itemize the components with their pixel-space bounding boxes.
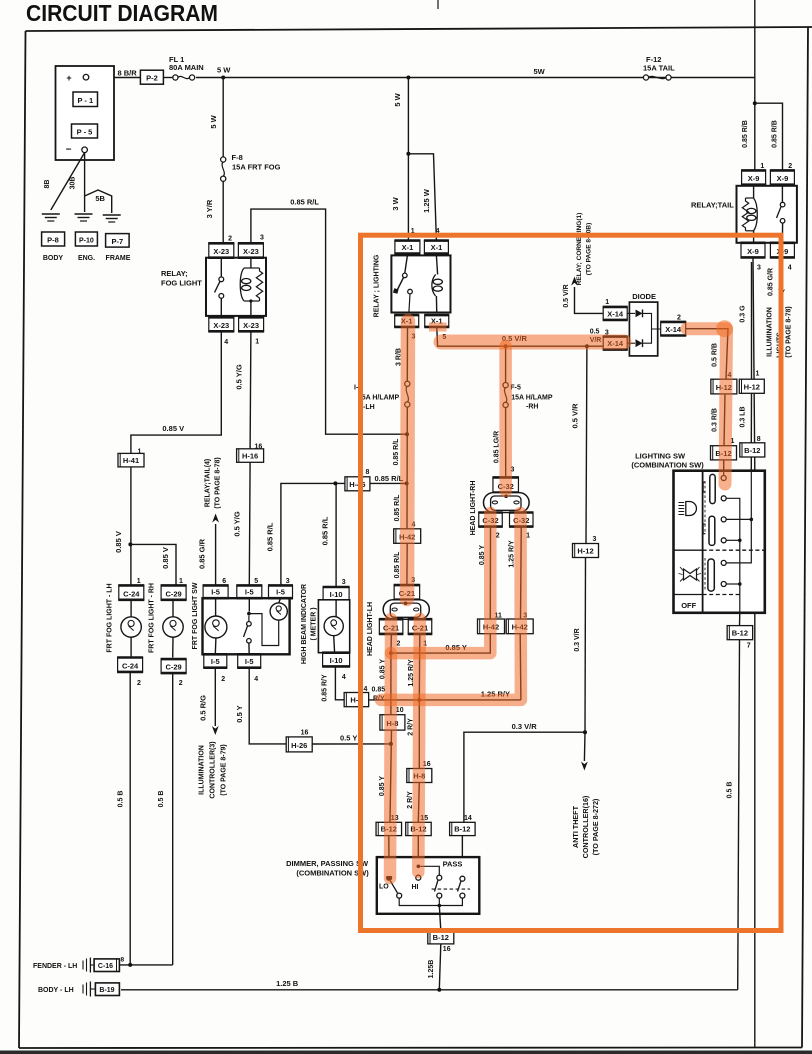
anti theft branch xyxy=(583,730,587,734)
svg-text:2: 2 xyxy=(137,680,141,687)
svg-text:0.85 V: 0.85 V xyxy=(161,547,170,569)
svg-text:3: 3 xyxy=(342,579,346,586)
fog sw bulb xyxy=(215,598,217,616)
wire X-9 pin3 down (long) xyxy=(753,257,755,470)
wire I-5 pin4 to H-26 0.5 Y xyxy=(249,668,287,744)
svg-text:4: 4 xyxy=(788,265,792,272)
wire I-5 pin2 down to ILLUMINATION CONTROLLER(3) xyxy=(214,668,216,726)
splice H-46 xyxy=(345,477,370,491)
svg-text:5 W: 5 W xyxy=(209,114,218,128)
connector I-5 xyxy=(204,654,227,667)
svg-text:16: 16 xyxy=(301,729,309,736)
svg-text:ILLUMINATION: ILLUMINATION xyxy=(199,745,206,795)
svg-text:5W: 5W xyxy=(534,67,546,76)
svg-text:0.85 R/L: 0.85 R/L xyxy=(321,516,330,545)
wire 2 R/Y down to H-8(16) xyxy=(418,700,420,769)
contact bars xyxy=(710,474,715,503)
svg-text:OFF: OFF xyxy=(681,601,696,610)
connector C-24 xyxy=(118,658,143,672)
svg-text:5: 5 xyxy=(254,578,258,585)
svg-text:5B: 5B xyxy=(95,194,105,203)
svg-text:I-5: I-5 xyxy=(211,588,220,597)
connector I-5 xyxy=(203,585,228,598)
svg-text:X-9: X-9 xyxy=(748,174,760,183)
orange border rectangle xyxy=(361,235,782,930)
connector X-1 pin 4 xyxy=(424,241,448,254)
svg-text:X-14: X-14 xyxy=(665,325,682,334)
svg-text:P-7: P-7 xyxy=(111,237,123,246)
ground frame xyxy=(103,214,121,216)
svg-text:(TO PAGE 8-10B): (TO PAGE 8-10B) xyxy=(586,223,593,276)
svg-text:X-23: X-23 xyxy=(243,321,259,330)
svg-text:0.85 V: 0.85 V xyxy=(162,424,184,433)
wire X-1 pin5 to diode X-14(3) xyxy=(437,327,605,346)
connector I-5 xyxy=(237,585,262,598)
svg-text:3: 3 xyxy=(757,265,761,272)
svg-text:16: 16 xyxy=(255,444,263,451)
svg-text:8: 8 xyxy=(121,957,125,964)
svg-text:HEAD LIGHT-RH: HEAD LIGHT-RH xyxy=(470,481,477,536)
wire I-10 pin4 to H-9 xyxy=(335,666,344,699)
svg-text:1: 1 xyxy=(137,578,141,585)
svg-text:15A H/LAMP: 15A H/LAMP xyxy=(511,395,553,402)
connector X-14 pin 2 xyxy=(661,322,686,336)
connector X-14 pin 3 xyxy=(603,337,627,350)
svg-text:15A FRT FOG: 15A FRT FOG xyxy=(232,163,281,172)
svg-text:(TO PAGE 8-272): (TO PAGE 8-272) xyxy=(591,798,600,855)
svg-text:14: 14 xyxy=(464,815,472,822)
svg-text:C-16: C-16 xyxy=(98,963,113,970)
svg-text:0.85 R/B: 0.85 R/B xyxy=(772,120,779,148)
highlight: X-1 pin5 to diode xyxy=(429,323,447,332)
highlight: F-5 RH feed xyxy=(499,346,512,491)
connector X-9 xyxy=(741,243,765,258)
relay lighting switch xyxy=(405,255,408,273)
svg-text:FOG LIGHT: FOG LIGHT xyxy=(161,279,202,288)
svg-text:4: 4 xyxy=(254,676,258,683)
svg-text:PASS: PASS xyxy=(443,860,463,869)
wire H-41 down 0.85 V xyxy=(130,467,132,586)
svg-text:3 W: 3 W xyxy=(391,196,400,210)
svg-text:HIGH BEAM INDICATOR: HIGH BEAM INDICATOR xyxy=(301,584,308,664)
svg-text:H-12: H-12 xyxy=(744,382,760,391)
splice H-9 xyxy=(344,693,369,707)
wire 5W down xyxy=(222,78,224,158)
ground body xyxy=(42,213,60,215)
svg-text:8: 8 xyxy=(366,469,370,476)
splice H-42 xyxy=(394,529,421,544)
svg-text:RELAY; CORNERING(1): RELAY; CORNERING(1) xyxy=(576,213,583,286)
svg-text:1.25 B: 1.25 B xyxy=(276,979,299,988)
svg-text:DIMMER, PASSING SW: DIMMER, PASSING SW xyxy=(286,859,369,868)
svg-text:0.5 Y/G: 0.5 Y/G xyxy=(233,511,242,536)
battery ground wires xyxy=(51,153,85,210)
branch to C-29 xyxy=(130,544,176,585)
svg-text:+: + xyxy=(66,73,71,83)
svg-text:B-12: B-12 xyxy=(454,825,470,834)
svg-text:5 W: 5 W xyxy=(393,92,402,106)
splice B-12 xyxy=(376,822,402,835)
svg-text:0.3 G: 0.3 G xyxy=(740,305,747,323)
fuse I-4 15A H/LAMP-LH xyxy=(405,381,410,386)
connector X-1 pin 3 xyxy=(395,315,419,327)
svg-text:8 B/R: 8 B/R xyxy=(118,69,138,78)
wire H-8(10) 0.85 Y column xyxy=(390,653,392,715)
svg-text:16: 16 xyxy=(443,946,451,953)
svg-text:P-10: P-10 xyxy=(79,238,94,245)
svg-text:0.5 V/R: 0.5 V/R xyxy=(563,284,570,307)
dimmer bottom bus xyxy=(399,898,462,905)
connector C-29 xyxy=(161,585,186,599)
splice H-12 xyxy=(711,379,737,394)
svg-text:1: 1 xyxy=(756,371,760,378)
connector C-21 xyxy=(408,619,432,634)
connector C-21 xyxy=(394,585,420,600)
connector X-9 xyxy=(742,170,766,184)
splice H-42 xyxy=(478,619,505,634)
splice B-12 xyxy=(428,930,454,944)
connector X-14 pin 1 xyxy=(603,307,627,320)
svg-text:8: 8 xyxy=(757,436,761,443)
svg-text:(COMBINATION SW): (COMBINATION SW) xyxy=(631,461,704,470)
B-12 pin 7 below xyxy=(739,613,741,626)
relay tail coil+resistor xyxy=(753,186,755,198)
fuse F-5 15A H/LAMP-RH xyxy=(505,346,507,382)
svg-text:0.5 R/G: 0.5 R/G xyxy=(199,695,208,721)
svg-text:H-26: H-26 xyxy=(291,741,307,750)
svg-text:0.5 Y/G: 0.5 Y/G xyxy=(235,364,244,389)
connector C-32 xyxy=(479,513,503,527)
svg-text:4: 4 xyxy=(342,674,346,681)
relay fog light box xyxy=(206,258,266,316)
splice H-8 xyxy=(380,715,405,730)
svg-text:C-24: C-24 xyxy=(122,661,139,670)
fog sw contacts xyxy=(248,598,250,611)
splice B-12 xyxy=(406,822,432,835)
svg-text:B-19: B-19 xyxy=(99,987,114,994)
svg-text:P-2: P-2 xyxy=(146,74,158,83)
connector X-9 xyxy=(770,170,794,184)
wire I-5 pin6 up to RELAY;TAIL(4) xyxy=(215,524,217,585)
splice B-12 xyxy=(450,822,476,835)
switch contacts xyxy=(723,471,725,476)
svg-text:0.3 R/B: 0.3 R/B xyxy=(712,408,719,432)
wire H-46 to R/L junction xyxy=(370,482,407,484)
wire X-1 pin3 down 3 R/B xyxy=(406,327,408,381)
svg-text:B-12: B-12 xyxy=(744,446,760,455)
highlight: C-21 pin2 to H-42(11) via 0.85Y xyxy=(391,513,490,653)
svg-text:(TO PAGE 8-78): (TO PAGE 8-78) xyxy=(215,457,222,508)
svg-text:P - 1: P - 1 xyxy=(77,96,93,105)
svg-text:-RH: -RH xyxy=(526,404,538,411)
svg-text:C-29: C-29 xyxy=(165,589,181,598)
wire to relay cornering xyxy=(575,287,605,313)
splice H-16 xyxy=(237,449,264,463)
svg-text:1: 1 xyxy=(179,578,183,585)
svg-text:30B: 30B xyxy=(70,177,77,190)
svg-text:I-10: I-10 xyxy=(330,656,343,665)
svg-text:CIRCUIT DIAGRAM: CIRCUIT DIAGRAM xyxy=(26,0,218,26)
svg-text:0.85: 0.85 xyxy=(372,687,386,694)
svg-text:FRT FOG LIGHT - LH: FRT FOG LIGHT - LH xyxy=(107,583,114,652)
svg-text:LO: LO xyxy=(379,884,389,891)
svg-text:1: 1 xyxy=(760,163,764,170)
svg-text:3: 3 xyxy=(593,536,597,543)
svg-text:BODY: BODY xyxy=(43,255,64,262)
svg-text:1.25 W: 1.25 W xyxy=(422,188,431,213)
svg-text:0.85 G/R: 0.85 G/R xyxy=(198,538,207,569)
svg-text:RELAY ; LIGHTING: RELAY ; LIGHTING xyxy=(374,254,381,317)
svg-text:0.5 Y: 0.5 Y xyxy=(235,705,244,722)
wire C-32 pin1 1.25 R/Y xyxy=(520,527,523,619)
wire X-23 pin1 0.5 Y/G to H-16 xyxy=(249,331,252,449)
svg-text:3: 3 xyxy=(286,578,290,585)
connector X-23 pin 3 xyxy=(238,243,263,257)
svg-text:ANTI THEFT: ANTI THEFT xyxy=(571,805,580,848)
svg-text:I-5: I-5 xyxy=(245,588,254,597)
svg-text:3: 3 xyxy=(260,235,264,242)
svg-text:(TO PAGE 8-79): (TO PAGE 8-79) xyxy=(221,744,228,795)
svg-text:-LH: -LH xyxy=(363,404,375,411)
connector I-5 xyxy=(269,585,293,598)
wire H-9 to junction xyxy=(369,699,420,701)
relay lighting coil xyxy=(436,255,437,274)
wires 5W/3W/1.25W to relay lighting xyxy=(407,78,409,241)
svg-text:5 W: 5 W xyxy=(217,66,231,75)
svg-text:X-23: X-23 xyxy=(213,321,229,330)
svg-text:C-24: C-24 xyxy=(123,589,140,598)
svg-text:2: 2 xyxy=(788,163,792,170)
connector X-23 pin 2 xyxy=(209,243,234,257)
connector C-21 xyxy=(379,619,403,634)
connector I-10 xyxy=(323,653,350,667)
svg-text:1: 1 xyxy=(605,299,609,306)
svg-text:8B: 8B xyxy=(44,180,51,189)
connector X-1 pin 1 xyxy=(395,241,420,254)
svg-text:2: 2 xyxy=(677,314,681,321)
highlight: C-21 pin1 down 2R/Y to HI xyxy=(418,619,420,872)
connector C-32 xyxy=(510,513,534,527)
svg-text:0.5: 0.5 xyxy=(590,329,600,336)
wire top right vertical x755 xyxy=(754,0,756,170)
svg-text:2: 2 xyxy=(221,676,225,683)
connector C-32 xyxy=(493,477,519,492)
splice H-42 xyxy=(506,619,533,634)
svg-text:F-5: F-5 xyxy=(510,385,521,392)
svg-text:X-9: X-9 xyxy=(747,247,759,256)
wire C-21 pin1 down xyxy=(418,634,421,700)
svg-text:7: 7 xyxy=(747,643,751,650)
svg-text:I-10: I-10 xyxy=(330,590,343,599)
svg-text:0.85 V: 0.85 V xyxy=(114,531,123,553)
wire X-14 pin2 to H-12 column xyxy=(686,329,728,380)
fog sw indicator lamp xyxy=(279,598,281,603)
splice H-41 xyxy=(118,453,144,467)
splice H-8 xyxy=(407,769,432,783)
svg-text:10: 10 xyxy=(396,707,404,714)
wire C-32 pin2 0.85 Y xyxy=(489,527,491,619)
diode internals xyxy=(627,312,635,314)
internal wiring xyxy=(726,498,740,613)
highlight: diode out to lighting sw xyxy=(687,329,727,484)
highlight: 1.25 R/Y bus xyxy=(381,513,521,700)
svg-text:X-1: X-1 xyxy=(402,243,414,252)
wire X-9 pin4 0.85 G/R to ILLUMINATION LIGHTS xyxy=(781,257,784,288)
svg-text:15A H/LAMP: 15A H/LAMP xyxy=(358,395,400,402)
svg-text:I-5: I-5 xyxy=(276,588,285,597)
splice H-12 xyxy=(573,544,599,558)
svg-text:RELAY;TAIL: RELAY;TAIL xyxy=(691,201,734,210)
wire I-10 branch xyxy=(335,483,337,587)
svg-text:0.5 B: 0.5 B xyxy=(727,782,734,799)
connector P-8 xyxy=(42,232,65,246)
highlight: 0.85Y down through H-8(10) to LO xyxy=(384,653,397,878)
svg-text:0.5 R/B: 0.5 R/B xyxy=(712,343,719,367)
svg-text:0.85 R/Y: 0.85 R/Y xyxy=(322,674,329,702)
connector I-5 xyxy=(238,654,261,667)
svg-text:X-9: X-9 xyxy=(777,174,789,183)
svg-text:1: 1 xyxy=(138,449,142,456)
svg-text:H-12: H-12 xyxy=(577,547,593,556)
svg-text:CONTROLLER(3): CONTROLLER(3) xyxy=(210,741,217,798)
svg-text:I-5: I-5 xyxy=(245,657,254,666)
svg-text:0.5 B: 0.5 B xyxy=(158,791,165,808)
svg-text:B-12: B-12 xyxy=(732,629,748,638)
wire fender junction xyxy=(119,964,172,966)
svg-text:80A MAIN: 80A MAIN xyxy=(169,63,204,72)
svg-text:FRT FOG LIGHT - RH: FRT FOG LIGHT - RH xyxy=(149,583,156,653)
connector X-9 xyxy=(770,243,794,258)
svg-text:0.85 R/L: 0.85 R/L xyxy=(375,474,404,483)
connector X-23 pin 4 xyxy=(209,317,234,331)
svg-text:FRT FOG LIGHT SW: FRT FOG LIGHT SW xyxy=(192,582,199,649)
svg-text:4: 4 xyxy=(364,686,368,693)
svg-text:6: 6 xyxy=(222,578,226,585)
svg-text:0.85 R/L: 0.85 R/L xyxy=(393,438,400,466)
svg-text:15A TAIL: 15A TAIL xyxy=(643,64,675,73)
connector C-24 xyxy=(119,585,144,599)
wire H-42(3) down to 1.25 R/Y bus xyxy=(519,634,522,700)
svg-text:( METER ): ( METER ) xyxy=(311,607,318,640)
splice B-12 xyxy=(727,626,753,640)
connector I-10 xyxy=(323,587,349,601)
splice H-12 xyxy=(739,379,764,393)
svg-text:H-16: H-16 xyxy=(242,451,258,460)
svg-text:X-14: X-14 xyxy=(607,309,624,318)
connector P-10 xyxy=(75,232,97,246)
svg-text:−: − xyxy=(66,145,72,156)
branch to X-9 pin2 xyxy=(753,101,757,105)
svg-text:B-12: B-12 xyxy=(433,933,449,942)
svg-text:0.3 V/R: 0.3 V/R xyxy=(574,628,581,651)
svg-text:F-8: F-8 xyxy=(232,153,243,162)
wire X-23 pin4 to H-41 xyxy=(131,331,221,453)
svg-text:0.85 R/L: 0.85 R/L xyxy=(266,522,275,551)
connector X-23 pin 1 xyxy=(239,317,264,331)
battery P-1/P-5 xyxy=(56,66,115,160)
page frame xyxy=(19,31,26,1048)
connector P-2 xyxy=(140,70,163,84)
splice H-26 xyxy=(286,737,312,752)
svg-text:0.5 Y: 0.5 Y xyxy=(340,734,357,743)
svg-text:0.85 R/B: 0.85 R/B xyxy=(742,120,749,148)
relay fog switch xyxy=(220,258,222,277)
svg-text:2: 2 xyxy=(228,236,232,243)
svg-text:0.3 LB: 0.3 LB xyxy=(740,406,747,427)
svg-text:3 Y/R: 3 Y/R xyxy=(205,199,214,218)
wire 0.85 R/L to fog relay coil xyxy=(251,209,407,434)
relay tail switch xyxy=(781,186,783,202)
svg-text:2: 2 xyxy=(179,680,183,687)
svg-text:X-1: X-1 xyxy=(431,243,443,252)
svg-text:(TO PAGE 8-78): (TO PAGE 8-78) xyxy=(786,306,793,357)
svg-text:P-8: P-8 xyxy=(47,236,59,245)
svg-text:0.85 G/R: 0.85 G/R xyxy=(768,268,775,296)
svg-text:RELAY;: RELAY; xyxy=(161,269,188,278)
svg-text:CONTROLLER(16): CONTROLLER(16) xyxy=(581,795,590,858)
connector P-7 xyxy=(106,234,130,248)
svg-text:FRAME: FRAME xyxy=(106,255,131,262)
wire 0.5 V/R down to H-12(3) xyxy=(585,346,588,543)
svg-text:H-41: H-41 xyxy=(123,456,139,465)
svg-text:FENDER - LH: FENDER - LH xyxy=(33,963,77,970)
svg-text:X-23: X-23 xyxy=(243,247,259,256)
headlight icon xyxy=(686,502,697,516)
wire 0.85 Y to H-42(11) xyxy=(391,634,490,653)
svg-text:4: 4 xyxy=(224,339,228,346)
svg-text:1: 1 xyxy=(255,339,259,346)
svg-text:P - 5: P - 5 xyxy=(77,128,93,137)
svg-text:1.25B: 1.25B xyxy=(428,960,435,979)
svg-text:0.85 R/L: 0.85 R/L xyxy=(290,198,319,207)
svg-text:ENG.: ENG. xyxy=(78,255,95,262)
svg-text:HEAD LIGHT-LH: HEAD LIGHT-LH xyxy=(367,602,374,656)
highlight: LH headlamp feed xyxy=(407,321,408,599)
svg-text:RELAY;TAIL(4): RELAY;TAIL(4) xyxy=(205,459,212,507)
splice B-12 xyxy=(740,443,765,457)
svg-text:C-29: C-29 xyxy=(165,663,181,672)
connector C-29 xyxy=(161,659,186,673)
connector X-1 pin 5 xyxy=(425,315,449,327)
svg-text:BODY - LH: BODY - LH xyxy=(38,987,74,994)
splice B-12 xyxy=(711,446,737,460)
fuse F-8 15A FRT FOG xyxy=(221,157,226,162)
svg-text:ILLUMINATION: ILLUMINATION xyxy=(767,307,774,357)
wire 0.85 R/L to H-46 xyxy=(281,483,346,585)
wire 0.3 G / 0.3 LB column xyxy=(751,262,753,379)
tail lamp icon xyxy=(684,569,697,580)
wire 1.25 B bottom xyxy=(121,989,738,991)
wire: battery positive feed xyxy=(86,77,140,79)
svg-text:I-5: I-5 xyxy=(211,657,220,666)
relay fog coil + resistor xyxy=(250,258,252,268)
svg-text:DIODE: DIODE xyxy=(632,292,656,301)
svg-text:X-23: X-23 xyxy=(213,247,229,256)
svg-text:LIGHTING SW: LIGHTING SW xyxy=(635,452,686,461)
svg-text:0.5 B: 0.5 B xyxy=(118,791,125,808)
svg-text:HI: HI xyxy=(412,884,419,891)
svg-text:H-46: H-46 xyxy=(349,480,365,489)
svg-text:0.5 V/R: 0.5 V/R xyxy=(571,403,580,429)
ground eng xyxy=(75,213,93,215)
wire C-21 pin2 0.85 Y xyxy=(390,634,393,653)
svg-text:0.3 V/R: 0.3 V/R xyxy=(512,722,538,731)
